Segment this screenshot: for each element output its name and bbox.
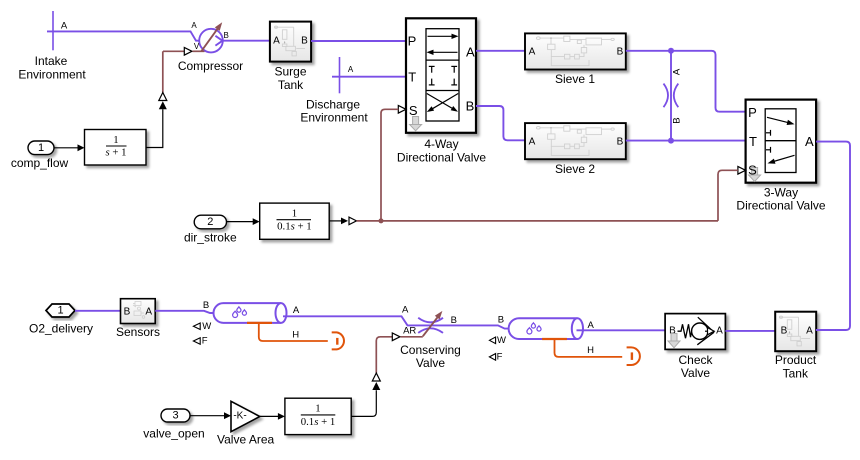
svg-text:A: A — [466, 45, 475, 60]
wire O2_delivery to Sensors — [75, 310, 121, 312]
svg-text:dir_stroke: dir_stroke — [184, 231, 237, 245]
svg-text:Conserving: Conserving — [400, 343, 461, 357]
svg-text:A: A — [672, 68, 683, 75]
svg-text:B: B — [498, 315, 504, 326]
svg-text:A: A — [716, 326, 723, 337]
block Product Tank — [775, 312, 817, 381]
wire Compressor B to Surge Tank A — [223, 40, 270, 42]
transfer function 1/(0.1s+1) TF3 — [285, 398, 351, 434]
svg-text:Compressor: Compressor — [178, 59, 243, 73]
svg-text:W: W — [202, 321, 211, 332]
wire TF1 output up — [146, 109, 163, 147]
svg-text:B: B — [672, 117, 683, 123]
wire valve_open to gain — [190, 412, 231, 419]
inport 1 comp_flow — [11, 141, 69, 170]
PS conversion marker (open+filled triangles) above TF1 — [159, 93, 167, 110]
svg-text:Directional Valve: Directional Valve — [736, 199, 825, 213]
svg-text:Valve Area: Valve Area — [217, 433, 274, 447]
block Sieve 2 — [525, 123, 626, 176]
svg-text:W: W — [497, 335, 506, 346]
svg-text:1: 1 — [57, 305, 63, 317]
node Intake Environment reservoir — [18, 11, 86, 81]
svg-text:Directional Valve: Directional Valve — [397, 151, 486, 165]
svg-text:A: A — [348, 65, 354, 74]
svg-text:1: 1 — [315, 403, 320, 415]
outport 1 O2_delivery — [29, 304, 93, 335]
svg-text:A: A — [191, 21, 197, 30]
block 3-Way Directional Valve — [736, 100, 825, 213]
wire physical signal into Compressor V — [163, 48, 205, 93]
svg-text:P: P — [748, 105, 757, 120]
svg-text:Tank: Tank — [278, 78, 304, 92]
node Discharge Environment reservoir — [300, 57, 368, 125]
svg-text:Discharge: Discharge — [306, 97, 360, 111]
wire 4-way A to Sieve 1 A — [476, 50, 525, 52]
svg-text:A: A — [529, 136, 536, 147]
svg-text:A: A — [806, 326, 813, 337]
block Surge Tank — [270, 22, 311, 92]
svg-text:Product: Product — [775, 353, 817, 367]
svg-text:comp_flow: comp_flow — [11, 156, 69, 170]
block 4-Way Directional Valve — [397, 18, 486, 164]
svg-text:0.1s + 1: 0.1s + 1 — [277, 221, 312, 233]
gain Valve Area — [217, 401, 274, 446]
transfer function 1/(0.1s+1) TF2 — [260, 203, 330, 239]
svg-text:B: B — [301, 36, 308, 47]
svg-text:H: H — [292, 330, 299, 341]
block Sieve 1 — [525, 33, 626, 86]
wire pipe2 H thermal port — [555, 339, 640, 365]
wire Discharge A to 4-way T — [332, 76, 406, 78]
svg-text:Environment: Environment — [18, 67, 86, 81]
svg-text:Sensors: Sensors — [116, 325, 160, 339]
wire valve_open brown to AR — [376, 333, 423, 373]
wire Sieve 2 B to 3-way T — [626, 140, 746, 142]
transfer function 1/(s+1) — [85, 130, 147, 166]
svg-text:B: B — [617, 136, 624, 147]
svg-text:Valve: Valve — [681, 366, 710, 380]
svg-text:Environment: Environment — [300, 111, 368, 125]
svg-text:A: A — [402, 305, 409, 316]
block Sensors — [116, 299, 160, 339]
svg-text:S: S — [409, 103, 418, 118]
svg-text:O2_delivery: O2_delivery — [29, 321, 93, 335]
svg-text:S: S — [748, 163, 757, 178]
svg-text:Surge: Surge — [274, 65, 306, 79]
svg-text:B: B — [466, 99, 475, 114]
svg-text:B: B — [124, 306, 131, 317]
svg-text:Valve: Valve — [416, 356, 445, 370]
svg-text:A: A — [273, 36, 280, 47]
svg-text:Tank: Tank — [783, 367, 809, 381]
wire pipe1 H thermal port — [259, 323, 344, 350]
pipe 2 — [498, 315, 595, 339]
svg-text:A: A — [588, 320, 595, 331]
unconnected W F ports pipe 1 — [193, 321, 211, 347]
wire Check Valve A to Product Tank B — [725, 330, 775, 332]
wire Surge Tank B to 4-way P — [311, 40, 406, 42]
inport 2 dir_stroke — [184, 215, 237, 244]
svg-text:A: A — [293, 305, 300, 316]
wire pipe1 A to Conserving Valve A — [283, 316, 412, 325]
wire 4-way B to Sieve 2 A — [476, 106, 525, 140]
block Check Valve — [665, 314, 725, 381]
svg-text:Sieve 1: Sieve 1 — [555, 72, 595, 86]
svg-text:3-Way: 3-Way — [764, 185, 798, 199]
wire pipe2 A to Check Valve B — [577, 329, 666, 331]
svg-text:s + 1: s + 1 — [105, 147, 126, 159]
svg-text:valve_open: valve_open — [143, 426, 204, 440]
svg-text:-K-: -K- — [233, 410, 246, 421]
svg-text:A: A — [61, 21, 68, 32]
svg-text:4-Way: 4-Way — [424, 137, 458, 151]
wire Conserving Valve B to Pipe 2 B — [453, 325, 509, 328]
svg-text:A: A — [145, 306, 152, 317]
wire TF2 output to PS conversion — [329, 217, 356, 225]
svg-text:3: 3 — [172, 410, 178, 422]
wire brown dir stroke net — [357, 109, 738, 223]
wire dir_stroke to TF2 — [227, 218, 260, 225]
svg-text:2: 2 — [207, 216, 213, 228]
svg-text:Intake: Intake — [35, 54, 68, 68]
svg-text:1: 1 — [113, 134, 118, 146]
wire 3-way A to Product Tank A — [816, 142, 850, 330]
wire vertical connector between sieve outputs — [664, 48, 683, 144]
compressor — [178, 21, 243, 73]
conserving valve — [400, 305, 461, 370]
open triangle into 4-way S port — [398, 106, 406, 114]
svg-text:B: B — [224, 31, 229, 40]
svg-text:F: F — [202, 336, 208, 347]
svg-text:B: B — [617, 47, 624, 58]
svg-text:F: F — [497, 351, 503, 362]
svg-text:A: A — [805, 134, 814, 149]
svg-text:1: 1 — [38, 142, 44, 154]
wire Sieve 1 B to 3-way P — [626, 51, 746, 112]
inport 3 valve_open — [143, 409, 204, 440]
wire Intake A to Compressor A — [47, 31, 200, 40]
svg-text:Sieve 2: Sieve 2 — [555, 162, 595, 176]
unconnected W F ports pipe 2 — [489, 335, 506, 363]
svg-text:T: T — [749, 134, 757, 149]
wire gain to TF3 — [260, 413, 285, 420]
svg-text:Check: Check — [678, 353, 713, 367]
wire TF3 output up to PS conversion — [351, 373, 380, 416]
wire comp_flow to TF1 — [54, 144, 85, 151]
svg-text:B: B — [203, 300, 209, 311]
svg-text:P: P — [408, 34, 417, 49]
svg-text:B: B — [781, 326, 788, 337]
wire Sensors A to Pipe 1 B — [155, 311, 213, 313]
svg-text:V: V — [194, 42, 200, 51]
open triangle into 3-way S port — [738, 167, 746, 175]
pipe 1 — [203, 300, 300, 323]
svg-text:T: T — [408, 70, 416, 85]
svg-text:0.1s + 1: 0.1s + 1 — [301, 416, 336, 428]
svg-text:AR: AR — [403, 326, 416, 337]
svg-text:A: A — [529, 47, 536, 58]
svg-text:H: H — [587, 345, 594, 356]
svg-text:1: 1 — [292, 208, 297, 220]
